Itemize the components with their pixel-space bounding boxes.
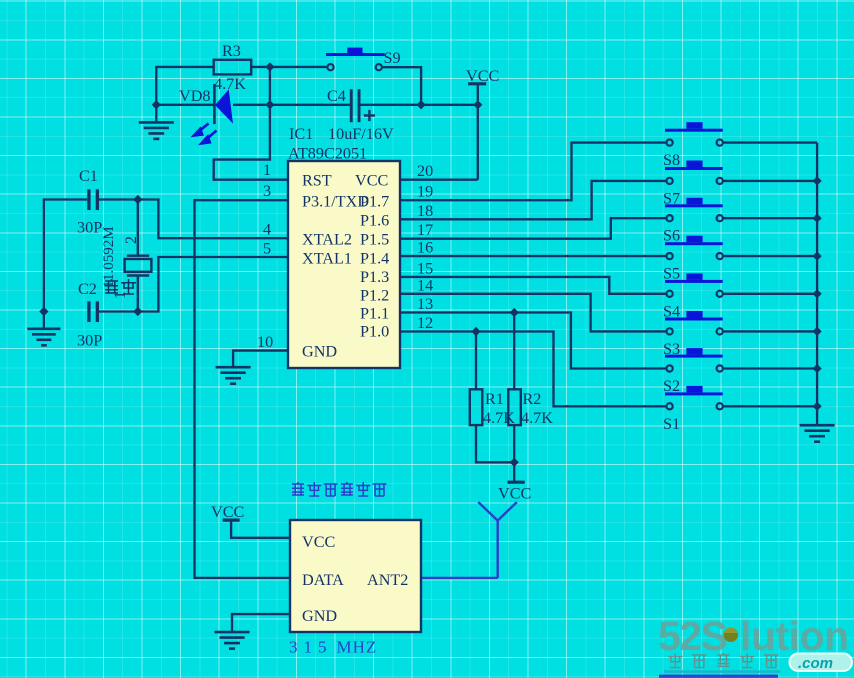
wire left rail to ground [43,312,45,329]
svg-text:11.0592M: 11.0592M [101,226,117,288]
junction bus at S4 [813,289,822,298]
svg-text:VCC: VCC [355,172,388,190]
switch S1 left contact [667,403,673,409]
label jingzhen (crystal) hanzi [105,279,136,294]
svg-text:2: 2 [123,236,140,244]
wire S5 to ground bus [723,255,817,257]
svg-text:S9: S9 [384,49,401,67]
wire pin14 to switch S3 [400,294,667,332]
wire module GND pin to ground [232,614,290,632]
wire S4 to ground bus [723,293,817,295]
svg-text:C4: C4 [327,87,346,105]
svg-text:C1: C1 [79,167,98,185]
svg-text:15: 15 [417,259,433,277]
wire from ground node up to R3 left [156,67,213,105]
switch S1 actuator bar [665,386,723,396]
svg-text:lution: lution [740,613,849,659]
switch S2 left contact [667,365,673,371]
crystal Y1 body [125,259,152,272]
svg-text:DATA: DATA [302,571,344,589]
svg-text:10uF/16V: 10uF/16V [328,125,394,143]
antenna ANT [478,502,517,578]
svg-text:16: 16 [417,239,433,257]
crystal Y1 bottom plate [127,274,149,276]
wire pin4 XTAL2 to crystal top node [138,200,288,239]
switch S5 actuator bar [665,236,723,246]
svg-text:ANT2: ANT2 [367,571,408,589]
svg-text:VCC: VCC [302,533,335,551]
wire LED node to C4 left plate [270,104,350,106]
svg-text:.com: .com [798,655,833,672]
svg-text:P1.0: P1.0 [360,323,389,341]
svg-text:13: 13 [417,295,433,313]
ground at module GND [215,632,250,649]
wire VCC bar down to pin20 row [477,84,479,180]
capacitor C2 plates [87,301,99,322]
switch S9 actuator bar [326,48,385,56]
junction R1-R2 VCC node [510,458,519,467]
switch S4 actuator bar [665,273,723,283]
resistor R2 [508,389,521,425]
svg-text:XTAL2: XTAL2 [302,231,352,249]
wire R2 bottom to VCC bar [513,425,515,482]
resistor R1 [470,389,483,425]
svg-text:XTAL1: XTAL1 [302,250,352,268]
svg-text:S1: S1 [663,415,680,433]
power VCC top bar [468,82,486,85]
svg-text:19: 19 [417,183,433,201]
svg-text:VD8: VD8 [179,87,210,105]
wire pin18 to switch S7 [400,181,667,219]
switch S5 right contact [717,253,723,259]
svg-text:R1: R1 [485,390,504,408]
junction bus at S6 [813,214,822,223]
switch S5 left contact [667,253,673,259]
junction bus at S5 [813,252,822,261]
switch S6 left contact [667,215,673,221]
wire pin16 to switch S5 [400,255,667,257]
wire S9 node to VCC rail [421,104,478,106]
wire C4 right plate to S9 node [361,104,422,106]
svg-text:P1.4: P1.4 [360,250,389,268]
junction at ground/LED node [152,100,161,109]
switch S7 actuator bar [665,161,723,171]
watermark underline teal [664,670,780,673]
wire S2 to ground bus [723,367,817,369]
svg-text:P1.3: P1.3 [360,268,389,286]
wire pin20 to VCC rail [400,179,478,181]
svg-text:P1.7: P1.7 [360,193,389,211]
junction bus at S1 [813,402,822,411]
watermark .com badge [790,654,853,672]
junction R3-S9-LED node [265,62,274,71]
junction bus at S3 [813,327,822,336]
svg-text:GND: GND [302,343,337,361]
junction crystal bottom node [133,307,142,316]
wire C1 left to left rail [44,200,87,312]
svg-text:20: 20 [417,162,433,180]
wire pin10 GND to ground [233,351,288,368]
switch S3 right contact [717,328,723,334]
wire R2 top lead [513,313,515,390]
ground stem wire [155,105,157,123]
switch S6 right contact [717,215,723,221]
wire S8 to ground bus [723,141,817,143]
svg-text:P1.6: P1.6 [360,212,389,230]
junction VD8-R3 right node [265,100,274,109]
wire S7 to ground bus [723,180,817,182]
svg-text:C2: C2 [78,280,97,298]
wire S3 to ground bus [723,330,817,332]
switch S8 actuator bar [665,122,723,132]
watermark underline blue [659,675,778,678]
svg-text:P1.1: P1.1 [360,305,389,323]
switch S2 right contact [717,365,723,371]
svg-text:P1.2: P1.2 [360,287,389,305]
svg-text:RST: RST [302,172,332,190]
switch S1 right contact [717,403,723,409]
svg-text:3: 3 [263,182,271,200]
svg-text:VCC: VCC [498,485,531,503]
svg-text:VCC: VCC [466,67,499,85]
junction R2 tap on pin13 net [510,308,519,317]
resistor R3 [214,60,252,75]
switch S7 right contact [717,178,723,184]
op-amp IC1 body AT89C2051 [288,161,400,368]
svg-text:4.7K: 4.7K [521,409,553,427]
junction C4-VCC rail node [473,100,482,109]
svg-text:S8: S8 [663,151,680,169]
LED VD8 triangle [215,90,233,124]
watermark wo ai fang an wang hanzi [668,653,779,668]
watermark 52Solution text [658,613,849,659]
svg-text:R3: R3 [222,42,241,60]
svg-text:315MHZ: 315MHZ [289,638,377,657]
svg-text:GND: GND [302,607,337,625]
svg-text:30P: 30P [77,332,102,350]
switch S8 right contact [717,140,723,146]
LED VD8 cathode bar [213,84,216,124]
wire C1 right to crystal node [99,198,138,200]
wire pin3 P3.1/TXD to module DATA [195,200,291,578]
switch S6 actuator bar [665,198,723,208]
switch S2 actuator bar [665,348,723,358]
switch S4 left contact [667,291,673,297]
wire R3 right to S9 left [251,66,327,68]
ground at switch bus [800,425,835,442]
switch S3 actuator bar [665,311,723,321]
svg-text:P1.5: P1.5 [360,231,389,249]
wire S9 right contact down to C4 row [382,67,421,105]
svg-text:S2: S2 [663,377,680,395]
RF module U2 body [290,520,421,632]
ground at C1 C2 rail [27,329,60,346]
svg-text:14: 14 [417,276,433,294]
junction crystal top node [133,195,142,204]
wire ground node to VD8 cathode [156,104,214,106]
junction bus at S7 [813,176,822,185]
wire ground bus vertical [816,143,818,425]
svg-text:1: 1 [263,161,271,179]
wire crystal top lead [137,200,139,256]
wire R1 top lead [475,332,477,390]
svg-text:30P: 30P [77,219,102,237]
svg-text:S6: S6 [663,227,680,245]
ground at IC1 pin10 [216,367,251,384]
svg-text:4.7K: 4.7K [214,75,246,93]
wire antenna to module ANT2 [421,577,498,579]
power VCC mid bar [508,481,525,484]
switch S4 right contact [717,291,723,297]
wire pin5 XTAL1 to crystal bottom node [138,257,288,312]
watermark ball o [724,628,738,642]
wire VCC bar to module VCC pin [231,520,290,538]
svg-text:17: 17 [417,221,433,239]
wire S1 to ground bus [723,405,817,407]
svg-text:18: 18 [417,202,433,220]
switch S3 left contact [667,328,673,334]
capacitor C4 plates [350,89,361,122]
junction left rail ground node [39,307,48,316]
wire pin15 to switch S4 [400,277,667,294]
ground at VD8 anode [139,122,174,138]
wire C2 right to crystal bottom node [99,310,138,312]
junction R1 tap on pin12 net [471,327,480,336]
wire pin13 to switch S2 [400,313,667,369]
capacitor C4 plus sign [364,110,375,121]
junction S9-C4 node [417,100,426,109]
capacitor C1 plates [87,189,99,210]
svg-text:VCC: VCC [211,503,244,521]
label wuxian fashe mokuai (wireless TX module) hanzi [292,482,387,496]
wire pin19 to switch S8 [400,143,667,201]
switch S8 left contact [667,140,673,146]
switch S7 left contact [667,178,673,184]
power VCC module bar [223,518,240,521]
wire pin1 RST to LED node [214,105,288,180]
LED VD8 emission arrows [192,124,217,145]
svg-text:R2: R2 [523,390,542,408]
svg-text:4: 4 [263,221,271,239]
switch S9 left contact [327,64,333,70]
svg-text:12: 12 [417,314,433,332]
wire pin17 to switch S6 [400,218,667,239]
svg-text:52S: 52S [658,613,727,659]
crystal Y1 top plate [127,254,149,256]
svg-text:5: 5 [263,240,271,258]
switch S9 right contact [376,64,382,70]
svg-text:10: 10 [257,333,273,351]
junction bus at S2 [813,364,822,373]
svg-text:IC1: IC1 [289,125,313,143]
wire S6 to ground bus [723,217,817,219]
svg-text:AT89C2051: AT89C2051 [288,145,367,163]
wire junction down to LED cathode row [269,67,271,105]
wire R1 bottom to VCC node [476,425,514,462]
wire pin12 to switch S1 [400,332,667,407]
wire VD8 anode to C4 node [233,104,270,106]
wire crystal bottom lead [137,276,139,312]
